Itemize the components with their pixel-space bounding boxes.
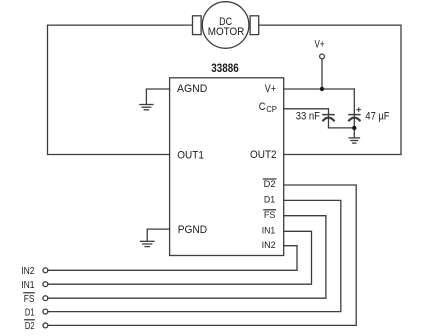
svg-text:IN1: IN1 xyxy=(21,280,35,291)
label DC MOTOR xyxy=(208,16,245,38)
capacitor C1 33nF xyxy=(323,115,334,128)
svg-text:IN2: IN2 xyxy=(21,266,35,277)
svg-text:MOTOR: MOTOR xyxy=(208,26,245,38)
svg-text:OUT1: OUT1 xyxy=(177,149,204,161)
svg-text:33 nF: 33 nF xyxy=(296,110,320,122)
svg-text:D1: D1 xyxy=(264,195,275,205)
wire V+ pin rail xyxy=(284,88,355,90)
wire FS pin to FS terminal xyxy=(48,216,326,299)
junction node cap ground xyxy=(352,126,356,130)
terminal V+ xyxy=(320,54,325,89)
pin label FS with overline xyxy=(263,210,276,220)
wire D1 pin to D1 terminal xyxy=(48,200,341,311)
label terminal FS with overline xyxy=(23,293,35,305)
wire motor right terminal to OUT2 xyxy=(259,25,401,154)
ground PGND xyxy=(141,241,154,246)
dc motor M1 xyxy=(193,2,259,49)
svg-text:IN2: IN2 xyxy=(262,240,276,250)
svg-text:V+: V+ xyxy=(265,83,276,95)
svg-text:FS: FS xyxy=(264,210,276,220)
ic U1 33886 body xyxy=(170,78,284,256)
wire IN2 pin to IN2 terminal xyxy=(48,246,297,271)
svg-text:33886: 33886 xyxy=(211,63,238,75)
svg-text:FS: FS xyxy=(24,294,35,305)
svg-text:AGND: AGND xyxy=(177,83,207,95)
terminal FS xyxy=(43,296,48,301)
svg-text:IN1: IN1 xyxy=(262,226,276,236)
junction node V+ rail xyxy=(320,87,324,91)
svg-text:47 µF: 47 µF xyxy=(365,111,389,123)
terminal D1 xyxy=(43,309,48,314)
svg-text:D2: D2 xyxy=(25,321,35,332)
wire motor left terminal to OUT1 xyxy=(48,25,193,154)
svg-text:C: C xyxy=(259,101,266,113)
svg-text:OUT2: OUT2 xyxy=(250,149,277,161)
wire CCP pin to C1 xyxy=(284,109,329,115)
ground AGND xyxy=(140,105,153,110)
ground C2 xyxy=(349,138,359,143)
pin label D2 with overline xyxy=(263,179,277,189)
capacitor C2 47uF xyxy=(349,89,361,138)
wire D2 pin to D2 terminal xyxy=(48,185,356,325)
svg-text:CP: CP xyxy=(266,104,277,114)
svg-text:D2: D2 xyxy=(264,179,276,189)
wire C1 bottom rail to C2 bottom xyxy=(329,127,355,129)
terminal IN1 xyxy=(43,282,48,287)
wire IN1 pin to IN1 terminal xyxy=(48,231,312,284)
label terminal D2 with overline xyxy=(24,320,35,332)
terminal D2 xyxy=(43,323,48,328)
wire AGND pin to ground xyxy=(146,89,169,105)
svg-text:D1: D1 xyxy=(25,307,35,318)
svg-text:PGND: PGND xyxy=(178,224,208,236)
terminal IN2 xyxy=(43,268,48,273)
svg-text:V+: V+ xyxy=(315,39,325,51)
wire PGND pin to ground xyxy=(147,229,169,241)
